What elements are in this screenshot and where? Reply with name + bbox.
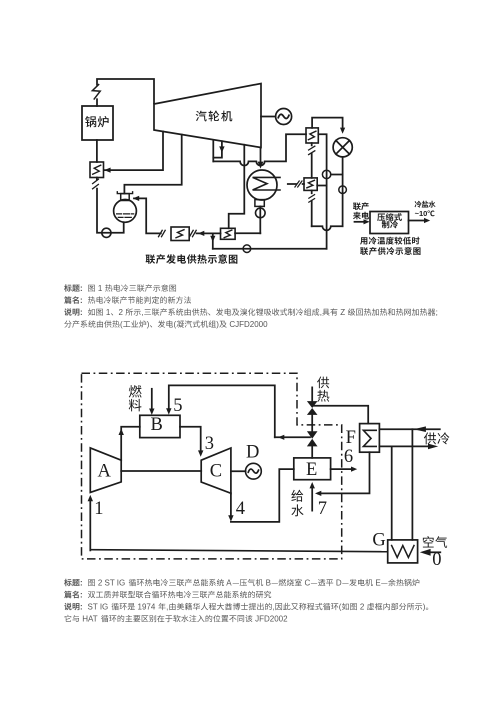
svg-text:1: 1	[104, 308, 111, 317]
hotwell box under condenser	[255, 200, 264, 207]
svg-text:4: 4	[236, 499, 245, 519]
wire E steam outlet riser	[311, 446, 313, 458]
svg-text:2: 2	[358, 603, 367, 612]
wire condensate to heater HX2	[235, 232, 260, 234]
wire HXa drain riser with pump	[318, 134, 331, 248]
air intake riser with arrow, node 1	[88, 495, 104, 551]
svg-text:(: (	[174, 320, 177, 329]
svg-text:6: 6	[344, 447, 353, 467]
turbine extraction wire to HX2	[229, 145, 245, 229]
caption block2 line4	[65, 615, 288, 624]
caption 联产发电供热示意图	[146, 254, 238, 264]
caption 联产供冷示意图	[360, 247, 420, 255]
deaerator tank with water level	[114, 200, 137, 223]
svg-text:D: D	[334, 579, 342, 588]
deaerator head	[117, 192, 132, 201]
main extraction header with line hops	[213, 134, 306, 165]
wire HX2 to tee junction with down arrow	[210, 233, 220, 248]
svg-text:B: B	[263, 579, 271, 588]
svg-text:7: 7	[318, 499, 327, 519]
turbine bleed stub with down arrow	[213, 141, 224, 157]
label 给水 (feedwater)	[291, 490, 303, 517]
dash-dot system boundary	[82, 373, 342, 559]
cooling supply circuit 供冷	[379, 426, 449, 540]
svg-text:0: 0	[432, 550, 441, 570]
svg-text::: :	[80, 308, 83, 317]
svg-text:E: E	[373, 579, 381, 588]
svg-text:1974: 1974	[135, 603, 157, 612]
compression chiller box 压缩式制冷	[370, 212, 409, 234]
turbine extraction wire to deaerator	[124, 135, 181, 194]
chilled brine out arrow	[409, 218, 431, 223]
air preheater G	[372, 531, 417, 563]
svg-text:D: D	[246, 443, 259, 463]
svg-text::: :	[80, 284, 83, 293]
wire valve V1 branch to F	[314, 406, 369, 424]
air inlet arrow, node 0	[420, 536, 447, 570]
caption block1 line4	[64, 320, 268, 329]
LP heater HX2	[221, 228, 236, 239]
generator D (~)	[231, 443, 261, 480]
valve V2 (bowtie)	[307, 431, 318, 446]
caption block1 line1 标题	[64, 284, 176, 293]
heating steam heater HXa	[306, 128, 318, 143]
economizer box below boiler	[90, 140, 104, 179]
caption 用冷温度较低时	[360, 237, 419, 245]
svg-text:A: A	[225, 579, 233, 588]
wire feedwater with left arrow	[197, 231, 213, 236]
svg-text:,: ,	[273, 603, 275, 612]
wire between valves	[311, 415, 313, 431]
wire compressor A to B with up arrow	[119, 427, 140, 461]
svg-text:1: 1	[94, 499, 103, 519]
svg-text:,: ,	[166, 603, 168, 612]
svg-text:,: ,	[320, 308, 322, 317]
LP heater HX1	[171, 227, 189, 241]
svg-text:JFD2002: JFD2002	[253, 615, 288, 624]
valve V1 (bowtie)	[307, 401, 318, 415]
gas turbine C	[201, 448, 231, 493]
steam output arrow, node 6	[331, 447, 358, 472]
wire pump discharge to chiller line	[331, 174, 343, 176]
label 燃料 (fuel)	[129, 385, 142, 411]
generator G (~)	[276, 109, 292, 125]
pipe-break marks left of HX1	[159, 230, 166, 236]
steam turbine 汽轮机	[154, 84, 261, 148]
absorption chiller (crossed circle)	[333, 138, 352, 157]
fuel inlet arrow into B	[149, 389, 154, 415]
svg-text:B: B	[151, 415, 163, 435]
pipe-break symbol on boiler steam line	[92, 85, 100, 99]
svg-text:): )	[423, 603, 426, 612]
svg-text::: :	[80, 579, 83, 588]
svg-text:): )	[147, 320, 150, 329]
svg-text:3: 3	[205, 434, 214, 454]
svg-text:ST IG: ST IG	[85, 603, 110, 612]
air duct bottom wire	[90, 550, 387, 552]
caption block1 line2 篇名	[64, 296, 191, 305]
steam injection line 5 into B	[166, 385, 275, 437]
wire chiller drain with line hop	[312, 226, 343, 230]
wire boiler top to turbine inlet	[97, 79, 154, 106]
wire HXa to chiller with down arrow	[312, 118, 345, 134]
svg-text:;: ;	[436, 308, 438, 317]
svg-text::: :	[80, 591, 83, 600]
turbine extraction wire to economizer with arrow	[104, 132, 163, 173]
condensate pump	[255, 206, 265, 233]
wire turbine to generator	[261, 116, 276, 118]
svg-text:E: E	[306, 460, 317, 480]
svg-text:2 ST IG: 2 ST IG	[96, 579, 128, 588]
svg-text::: :	[80, 603, 83, 612]
boiler 锅炉	[82, 106, 113, 140]
waste heat boiler E	[294, 458, 331, 480]
condenser heat-exchanger circle	[247, 170, 280, 200]
F condensate drain with left arrow	[315, 452, 370, 496]
feedwater riser 7 with up arrow	[310, 482, 328, 519]
svg-text:F: F	[346, 428, 356, 448]
chiller condensate wire with pump	[339, 157, 347, 226]
svg-text:(: (	[339, 603, 342, 612]
svg-text:,: ,	[141, 308, 143, 317]
svg-text:(: (	[120, 320, 123, 329]
svg-text:A: A	[98, 461, 112, 481]
svg-text:Z: Z	[338, 308, 347, 317]
caption block2 line3 说明	[64, 603, 428, 612]
wire HXb outlet	[317, 185, 326, 187]
combustor B	[140, 415, 180, 438]
shaft wire A to C	[121, 470, 201, 472]
pipe-break marks below HXa	[309, 143, 315, 178]
svg-text:G: G	[372, 531, 385, 551]
svg-text:HAT: HAT	[80, 615, 100, 624]
turbine exhaust wire with arrow	[258, 148, 264, 169]
caption block1 line3 说明	[64, 308, 438, 317]
wire condenser to HXb with break	[288, 181, 304, 187]
turbine extraction wire A	[212, 140, 214, 162]
svg-text:2: 2	[119, 308, 126, 317]
svg-text:5: 5	[173, 396, 182, 416]
heating network heater HXb	[304, 178, 317, 191]
heat exchanger F	[346, 424, 380, 453]
heat supply riser 供热	[312, 376, 329, 401]
svg-text:~10: ~10	[415, 209, 428, 218]
svg-text:C: C	[302, 579, 310, 588]
svg-text:1: 1	[96, 284, 105, 293]
deaerator drain wire with feed pump	[97, 189, 124, 238]
power input arrow to chiller box	[355, 219, 370, 224]
label ~10℃	[415, 209, 435, 218]
svg-text:C: C	[210, 461, 222, 481]
pipe-break marks below economizer	[93, 179, 99, 189]
turbine exhaust wire 4 to HRSG	[228, 469, 294, 522]
svg-text:CJFD2000: CJFD2000	[227, 320, 268, 329]
svg-text:): )	[216, 320, 219, 329]
label 联产来电	[353, 202, 369, 219]
heating network return line with pump	[213, 245, 327, 253]
label 冷盐水	[415, 201, 436, 208]
wire B to C with down arrow, node 3	[180, 427, 214, 457]
wire feedwater to deaerator inlet arrow	[133, 196, 161, 234]
pipe-break marks right of HX1	[190, 230, 197, 236]
wire HXb bottom with break	[309, 190, 315, 226]
svg-text::: :	[80, 296, 83, 305]
caption block2 line2 篇名	[64, 591, 271, 600]
compressor A	[90, 448, 121, 493]
steam return wire to injection riser	[275, 435, 310, 440]
caption block2 line1 标题	[64, 579, 419, 588]
